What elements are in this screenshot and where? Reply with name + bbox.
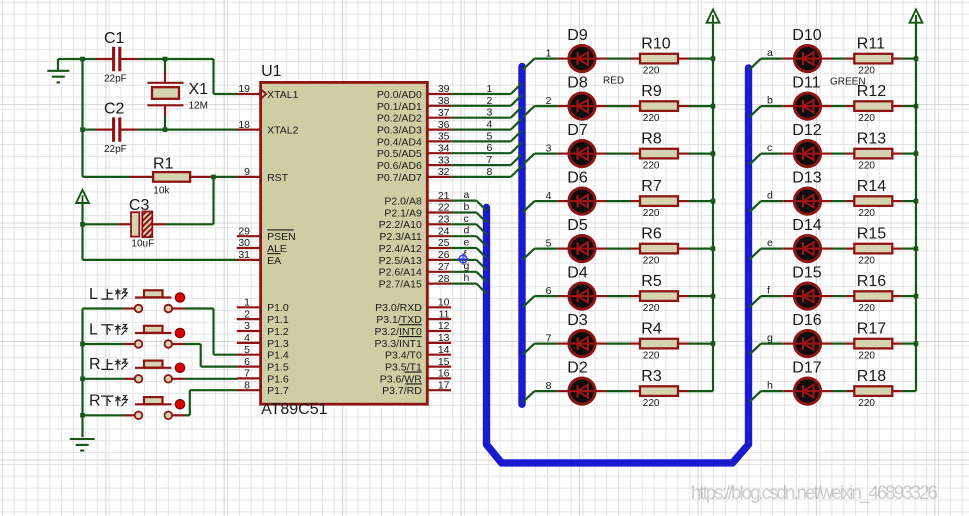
svg-text:220: 220 [643, 351, 660, 362]
svg-text:P0.0/AD0: P0.0/AD0 [377, 89, 422, 101]
svg-text:2: 2 [486, 95, 492, 107]
svg-text:R: R [89, 356, 101, 373]
svg-text:21: 21 [438, 190, 450, 202]
svg-text:P3.3/INT1: P3.3/INT1 [375, 338, 422, 350]
svg-text:D11: D11 [792, 74, 820, 91]
svg-text:14: 14 [438, 344, 450, 356]
svg-text:P0.1/AD1: P0.1/AD1 [377, 101, 422, 113]
svg-text:P0.4/AD4: P0.4/AD4 [377, 136, 422, 148]
svg-text:220: 220 [858, 351, 875, 362]
svg-text:R6: R6 [641, 226, 662, 243]
svg-text:C2: C2 [104, 100, 125, 117]
svg-text:R8: R8 [641, 131, 662, 148]
svg-text:f: f [767, 284, 770, 296]
svg-text:26: 26 [438, 249, 450, 261]
svg-text:XTAL2: XTAL2 [267, 125, 298, 137]
svg-text:6: 6 [546, 285, 552, 297]
svg-text:5: 5 [546, 238, 552, 250]
svg-text:39: 39 [438, 83, 450, 95]
svg-text:P2.6/A14: P2.6/A14 [379, 267, 422, 279]
svg-text:28: 28 [438, 273, 450, 285]
svg-text:R5: R5 [641, 273, 662, 290]
svg-text:R1: R1 [153, 155, 174, 172]
svg-text:P0.7/AD7: P0.7/AD7 [377, 172, 422, 184]
svg-text:e: e [464, 237, 470, 249]
svg-text:4: 4 [244, 332, 250, 344]
svg-text:c: c [464, 213, 469, 225]
svg-text:220: 220 [643, 303, 660, 314]
svg-text:P2.4/A12: P2.4/A12 [379, 243, 422, 255]
svg-text:29: 29 [238, 225, 250, 237]
svg-text:RST: RST [267, 172, 289, 184]
svg-text:d: d [767, 189, 773, 201]
svg-text:1: 1 [244, 297, 250, 309]
svg-text:D10: D10 [792, 27, 821, 44]
svg-text:D3: D3 [567, 312, 588, 329]
svg-text:C1: C1 [104, 30, 125, 47]
svg-text:P1.7: P1.7 [267, 385, 289, 397]
svg-text:D4: D4 [567, 264, 588, 281]
svg-text:P2.0/A8: P2.0/A8 [384, 196, 422, 208]
svg-text:P3.4/T0: P3.4/T0 [385, 350, 422, 362]
svg-text:30: 30 [238, 237, 250, 249]
svg-text:P0.5/AD5: P0.5/AD5 [377, 148, 422, 160]
svg-text:D8: D8 [567, 74, 588, 91]
svg-text:P1.0: P1.0 [267, 302, 289, 314]
svg-text:220: 220 [643, 161, 660, 172]
svg-text:220: 220 [858, 208, 875, 219]
svg-text:a: a [464, 189, 470, 201]
svg-text:R16: R16 [857, 273, 886, 290]
svg-text:13: 13 [438, 332, 450, 344]
svg-text:R10: R10 [641, 36, 670, 53]
svg-text:3: 3 [546, 143, 552, 155]
svg-text:D2: D2 [567, 359, 588, 376]
svg-text:6: 6 [244, 356, 250, 368]
svg-text:4: 4 [546, 190, 552, 202]
svg-text:4: 4 [486, 119, 492, 131]
svg-text:R15: R15 [857, 226, 886, 243]
svg-text:b: b [767, 94, 773, 106]
svg-text:R11: R11 [857, 36, 885, 53]
svg-text:25: 25 [438, 237, 450, 249]
svg-text:15: 15 [438, 356, 450, 368]
svg-text:U1: U1 [261, 63, 282, 80]
svg-text:23: 23 [438, 214, 450, 226]
svg-text:220: 220 [643, 66, 660, 77]
svg-text:R14: R14 [857, 178, 886, 195]
svg-text:P2.2/A10: P2.2/A10 [379, 219, 422, 231]
svg-text:PSEN: PSEN [267, 231, 296, 243]
svg-text:24: 24 [438, 225, 450, 237]
svg-text:P0.3/AD3: P0.3/AD3 [377, 125, 422, 137]
svg-text:220: 220 [643, 398, 660, 409]
svg-text:37: 37 [438, 107, 450, 119]
svg-text:e: e [767, 237, 773, 249]
svg-text:RED: RED [603, 76, 624, 87]
svg-text:P2.1/A9: P2.1/A9 [384, 207, 422, 219]
svg-text:EA: EA [267, 255, 281, 267]
svg-text:d: d [464, 225, 470, 237]
svg-text:12: 12 [438, 320, 450, 332]
svg-text:GREEN: GREEN [830, 77, 866, 88]
svg-text:P1.2: P1.2 [267, 326, 289, 338]
svg-text:XTAL1: XTAL1 [267, 89, 298, 101]
svg-text:D5: D5 [567, 217, 588, 234]
svg-text:R18: R18 [857, 368, 886, 385]
svg-text:h: h [767, 379, 773, 391]
svg-text:R13: R13 [857, 131, 886, 148]
svg-text:22pF: 22pF [104, 144, 127, 155]
svg-text:3: 3 [244, 320, 250, 332]
svg-text:P0.2/AD2: P0.2/AD2 [377, 113, 422, 125]
svg-text:R: R [89, 393, 101, 410]
svg-text:220: 220 [643, 113, 660, 124]
svg-text:22: 22 [438, 202, 450, 214]
svg-text:220: 220 [858, 256, 875, 267]
svg-text:7: 7 [546, 333, 552, 345]
svg-text:11: 11 [439, 308, 450, 320]
svg-text:C3: C3 [129, 197, 150, 214]
svg-text:38: 38 [438, 95, 450, 107]
svg-text:b: b [464, 201, 470, 213]
svg-text:220: 220 [858, 398, 875, 409]
svg-text:D9: D9 [567, 27, 588, 44]
svg-text:D7: D7 [567, 122, 588, 139]
svg-text:8: 8 [546, 380, 552, 392]
svg-text:D16: D16 [792, 312, 821, 329]
svg-text:P1.3: P1.3 [267, 338, 289, 350]
svg-text:g: g [767, 332, 773, 344]
svg-text:P2.7/A15: P2.7/A15 [379, 279, 422, 291]
svg-text:5: 5 [486, 130, 492, 142]
svg-text:D6: D6 [567, 169, 588, 186]
svg-text:D14: D14 [792, 217, 821, 234]
svg-text:https://blog.csdn.net/weixin_4: https://blog.csdn.net/weixin_46893326 [691, 483, 938, 504]
svg-text:c: c [767, 142, 772, 154]
svg-text:1: 1 [546, 48, 552, 60]
svg-text:8: 8 [244, 379, 250, 391]
svg-text:220: 220 [643, 256, 660, 267]
svg-text:17: 17 [438, 379, 450, 391]
svg-text:P2.5/A13: P2.5/A13 [379, 255, 422, 267]
svg-text:36: 36 [438, 119, 450, 131]
svg-text:220: 220 [858, 161, 875, 172]
svg-text:9: 9 [244, 166, 250, 178]
svg-text:X1: X1 [189, 81, 209, 98]
svg-text:7: 7 [486, 154, 492, 166]
svg-text:P3.0/RXD: P3.0/RXD [375, 302, 422, 314]
svg-text:L: L [89, 321, 98, 338]
svg-text:7: 7 [244, 368, 250, 380]
svg-text:P0.6/AD6: P0.6/AD6 [377, 160, 422, 172]
svg-text:2: 2 [244, 308, 250, 320]
svg-text:R17: R17 [857, 321, 886, 338]
svg-text:R9: R9 [641, 83, 662, 100]
svg-text:16: 16 [438, 368, 450, 380]
svg-text:h: h [464, 272, 470, 284]
svg-text:R4: R4 [641, 321, 662, 338]
svg-text:3: 3 [486, 107, 492, 119]
svg-text:a: a [767, 47, 773, 59]
svg-text:220: 220 [858, 113, 875, 124]
svg-text:5: 5 [244, 344, 250, 356]
svg-text:P1.1: P1.1 [267, 314, 289, 326]
svg-text:31: 31 [238, 249, 250, 261]
svg-text:R3: R3 [641, 368, 662, 385]
svg-text:27: 27 [438, 261, 450, 273]
svg-text:19: 19 [238, 83, 250, 95]
svg-text:8: 8 [486, 166, 492, 178]
svg-text:220: 220 [858, 303, 875, 314]
svg-text:1: 1 [486, 83, 492, 95]
svg-text:P3.7/RD: P3.7/RD [382, 385, 422, 397]
svg-text:P1.6: P1.6 [267, 373, 289, 385]
svg-text:12M: 12M [189, 101, 208, 112]
svg-text:18: 18 [238, 119, 250, 131]
svg-text:6: 6 [486, 142, 492, 154]
svg-text:22pF: 22pF [104, 74, 127, 85]
svg-text:33: 33 [438, 154, 450, 166]
svg-text:P2.3/A11: P2.3/A11 [379, 231, 422, 243]
svg-text:35: 35 [438, 131, 450, 143]
svg-text:34: 34 [438, 142, 450, 154]
svg-text:AT89C51: AT89C51 [261, 401, 328, 418]
svg-text:32: 32 [438, 166, 450, 178]
svg-text:2: 2 [546, 95, 552, 107]
svg-text:P1.5: P1.5 [267, 361, 289, 373]
svg-text:P1.4: P1.4 [267, 350, 289, 362]
svg-text:10: 10 [438, 297, 450, 309]
svg-text:10uF: 10uF [131, 238, 154, 249]
svg-text:10k: 10k [153, 185, 170, 196]
svg-text:D13: D13 [792, 169, 821, 186]
svg-text:L: L [89, 286, 98, 303]
svg-text:R7: R7 [641, 178, 662, 195]
svg-text:D15: D15 [792, 264, 821, 281]
svg-text:220: 220 [858, 66, 875, 77]
svg-text:D17: D17 [792, 359, 821, 376]
svg-text:220: 220 [643, 208, 660, 219]
svg-text:D12: D12 [792, 122, 821, 139]
